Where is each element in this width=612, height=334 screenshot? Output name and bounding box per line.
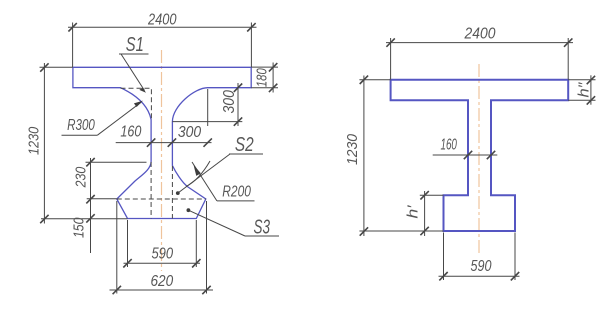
centerline left section	[161, 50, 163, 271]
dimension 300 vertical fillet depth	[172, 83, 242, 126]
leader R300	[62, 101, 144, 136]
hidden dashed corner at S1 fillet	[121, 88, 152, 119]
svg-text:590: 590	[151, 245, 173, 262]
beam cross-section contour (right simplified view)	[391, 80, 569, 231]
dimension 590 right view	[439, 233, 520, 281]
svg-text:S3: S3	[254, 217, 271, 239]
svg-text:1230: 1230	[26, 126, 43, 155]
dimension 1230 right view	[359, 76, 443, 237]
leader S1	[119, 34, 149, 93]
dimension 620 left view	[110, 201, 214, 294]
svg-text:160: 160	[120, 124, 141, 141]
dimension 1230 left view	[40, 63, 128, 224]
leader S2 with dot	[176, 134, 263, 195]
svg-text:1230: 1230	[344, 133, 361, 165]
svg-text:160: 160	[440, 137, 457, 154]
dimension 160 and 300 horizontal	[116, 138, 212, 146]
dimension h' bulb height right view	[420, 191, 444, 236]
svg-text:2400: 2400	[147, 12, 177, 29]
svg-text:620: 620	[150, 273, 173, 290]
svg-text:S1: S1	[126, 34, 144, 56]
svg-text:R200: R200	[222, 183, 251, 200]
svg-text:150: 150	[71, 217, 88, 238]
dimension 2400 right view	[386, 38, 573, 79]
svg-text:300: 300	[178, 124, 202, 141]
svg-text:h′: h′	[405, 204, 422, 218]
svg-text:230: 230	[73, 166, 90, 188]
hidden dashed web edge left extended	[150, 162, 152, 219]
svg-text:300: 300	[221, 90, 238, 114]
svg-text:h″: h″	[576, 82, 593, 98]
hidden dashed web edge right extended	[171, 166, 173, 219]
extension line fillet end	[207, 89, 209, 126]
dimension h'' flange thickness right view	[568, 75, 595, 104]
dimension 180 flange thickness	[251, 63, 278, 93]
leader S3 with dot	[187, 208, 280, 238]
hidden dashed bulb top line	[117, 198, 206, 200]
beam cross-section contour (left detailed view)	[73, 67, 251, 218]
svg-text:180: 180	[253, 68, 270, 87]
svg-text:S2: S2	[235, 134, 254, 156]
dimension 590 left view	[123, 220, 200, 268]
dimension 230 and 150 left side	[86, 158, 147, 253]
svg-text:R300: R300	[67, 117, 95, 134]
svg-text:2400: 2400	[464, 25, 496, 42]
centerline right section	[478, 64, 480, 255]
svg-text:590: 590	[471, 258, 492, 275]
leader R200 with radius arc	[186, 161, 255, 201]
dimension 160 right view	[433, 151, 498, 159]
dimension 2400 left view	[68, 23, 257, 68]
